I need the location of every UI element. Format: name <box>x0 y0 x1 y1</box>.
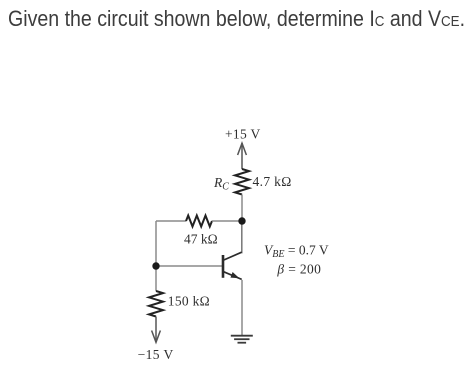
resistor 150k <box>149 291 163 317</box>
transistor emitter diagonal <box>224 272 242 280</box>
svg-text:+15 V: +15 V <box>225 127 261 142</box>
svg-text:4.7 kΩ: 4.7 kΩ <box>253 174 292 189</box>
node collector dot <box>238 217 245 224</box>
wire 150k to arrow <box>155 317 157 343</box>
svg-text:RC: RC <box>213 175 229 193</box>
svg-text:47 kΩ: 47 kΩ <box>184 231 218 246</box>
wire 47k row right segment <box>212 220 242 222</box>
resistor 47k <box>186 216 212 227</box>
wire emitter down <box>241 280 243 336</box>
wire left vertical to 150k <box>155 266 157 291</box>
node base dot <box>152 262 159 269</box>
resistor RC <box>235 169 249 195</box>
power +15V arrow <box>238 143 247 169</box>
transistor emitter arrowhead <box>231 272 240 278</box>
wire RC bottom to collector node <box>241 195 243 222</box>
ground <box>231 336 253 343</box>
wire collector node down to transistor <box>241 221 243 253</box>
transistor collector diagonal <box>224 252 242 260</box>
wire base <box>156 265 222 267</box>
arrow -15V head <box>152 331 161 343</box>
svg-text:−15 V: −15 V <box>138 347 174 362</box>
svg-text:β = 200: β = 200 <box>276 262 321 277</box>
svg-text:150 kΩ: 150 kΩ <box>168 293 210 308</box>
svg-text:VBE = 0.7 V: VBE = 0.7 V <box>264 243 329 261</box>
wire 47k row left segment <box>156 220 186 222</box>
wire left vertical top <box>155 221 157 266</box>
transistor Q1 base bar <box>222 255 225 278</box>
